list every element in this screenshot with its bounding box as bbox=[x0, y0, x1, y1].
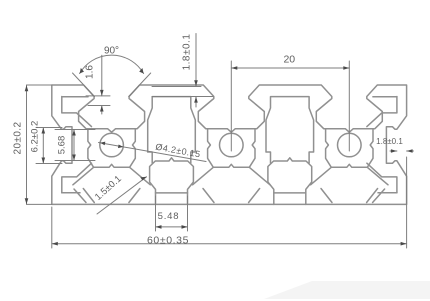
dim 20+-0.2 line bbox=[26, 85, 28, 204]
hole circle 2 bbox=[220, 133, 244, 157]
arrowheads dia 4.2 on circle bbox=[100, 142, 105, 146]
corner void top-left bbox=[62, 97, 92, 127]
svg-text:90°: 90° bbox=[104, 46, 119, 57]
hole circle 3 bbox=[338, 133, 362, 157]
profile outer boundary bbox=[52, 85, 407, 204]
corner void bottom-left bbox=[62, 163, 92, 193]
arrowheads 20 bbox=[231, 66, 237, 70]
dim 20 ext line left through circle 2 bbox=[230, 61, 232, 151]
dim 90deg arc bbox=[80, 55, 144, 73]
V construction line right bbox=[129, 73, 151, 97]
arrowheads 6.2 bbox=[42, 128, 46, 134]
channel walls cell 2 bbox=[208, 130, 255, 168]
bottom slot throat 2 bbox=[268, 158, 312, 205]
dim 6.2+-0.2 lines bbox=[42, 128, 44, 164]
inner top wall segment 4 bbox=[373, 96, 397, 98]
svg-text:1.8±0.1: 1.8±0.1 bbox=[182, 34, 193, 71]
bottom corner lip left bbox=[74, 189, 86, 203]
dim 20 ext line right through circle 3 bbox=[348, 61, 350, 151]
V construction line left bbox=[73, 73, 95, 97]
svg-text:6.2±0.2: 6.2±0.2 bbox=[30, 121, 41, 153]
arrowheads 5.68 bbox=[72, 130, 76, 136]
svg-text:5.48: 5.48 bbox=[158, 211, 180, 222]
web flare cell 3 left bbox=[311, 167, 332, 185]
dim 1.8 right lines bbox=[390, 150, 397, 152]
hole circle 1 bbox=[100, 133, 124, 157]
arrowhead 1.5 leader bbox=[140, 177, 146, 181]
svg-text:1.8±0.1: 1.8±0.1 bbox=[376, 137, 403, 146]
svg-text:20±0.2: 20±0.2 bbox=[13, 122, 24, 155]
dim 1.8 top lines bbox=[195, 34, 197, 87]
dim 20 line bbox=[231, 67, 349, 69]
arrowheads 1.6 bbox=[100, 90, 104, 96]
dim 1.6 lines bbox=[101, 55, 103, 96]
web flare cell 1 right bbox=[130, 167, 151, 185]
dim 1.5+-0.1 leader bbox=[97, 177, 147, 214]
bottom slot throat 1 bbox=[150, 158, 194, 205]
web flare cell 2 right bbox=[249, 167, 270, 185]
arrowheads 20+-0.2 bbox=[25, 85, 29, 91]
svg-text:5.68: 5.68 bbox=[57, 136, 68, 155]
dim 60+-0.35 line bbox=[52, 243, 407, 245]
inner bottom wall segment right bbox=[378, 192, 397, 194]
dim 5.68 lines bbox=[73, 130, 75, 161]
bottom slot 2 ledge bbox=[274, 192, 306, 194]
web flare cell 1 left bbox=[73, 167, 94, 185]
dim 5.48 lines bbox=[155, 196, 157, 231]
arrowheads 1.8 right bbox=[391, 149, 397, 153]
bottom corner lip right bbox=[373, 189, 385, 203]
arrowheads 1.8 top bbox=[194, 80, 198, 86]
arrowheads 90 arc bbox=[80, 68, 84, 74]
arrowheads 60 bbox=[52, 242, 58, 246]
inner bottom wall segment left bbox=[62, 192, 80, 194]
bottom lip diagonals under circle 3 bbox=[321, 189, 332, 203]
corner void top-right bbox=[367, 97, 397, 127]
inner top wall segment 1 bbox=[62, 96, 88, 98]
inner pi-structure between top slots 1-2 bbox=[148, 97, 196, 163]
corner void bottom-right bbox=[367, 163, 397, 193]
dia 4.2 leader line bbox=[99, 143, 207, 162]
inner pi-structure between top slots 2-3 bbox=[266, 97, 314, 163]
bottom lip diagonals under circle 1 bbox=[83, 189, 94, 203]
bottom slot 1 ledge bbox=[156, 192, 188, 194]
bottom lip diagonals under circle 2 bbox=[203, 189, 214, 203]
scan artifact band bbox=[264, 281, 430, 299]
svg-text:1.6: 1.6 bbox=[85, 65, 96, 79]
web flare cell 2 left bbox=[193, 167, 214, 185]
arrowheads 5.48 bbox=[156, 225, 162, 229]
svg-text:60±0.35: 60±0.35 bbox=[147, 235, 189, 247]
channel walls cell 1 bbox=[88, 130, 135, 168]
web flare cell 3 right bbox=[367, 167, 388, 185]
svg-text:20: 20 bbox=[283, 54, 295, 66]
channel walls cell 3 bbox=[326, 130, 373, 168]
